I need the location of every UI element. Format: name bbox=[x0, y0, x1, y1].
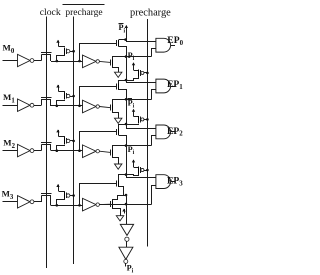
inverter I2a (input inverter) bbox=[18, 144, 31, 156]
node P0 junction bbox=[125, 55, 128, 58]
svg-text:M1: M1 bbox=[3, 92, 15, 104]
node n2 junction bbox=[56, 149, 59, 152]
inverter I3a (input inverter) bbox=[18, 196, 31, 208]
node branch to QP2 gate bbox=[78, 149, 81, 152]
AND gate G0 bbox=[156, 38, 171, 52]
svg-text:M0: M0 bbox=[3, 42, 15, 54]
inverter I0a (input inverter) bbox=[18, 54, 31, 66]
svg-text:Pi: Pi bbox=[127, 263, 134, 274]
node n1 junction bbox=[56, 105, 59, 108]
wire P1 bbox=[113, 100, 152, 105]
chain wire P0 to A1 bbox=[126, 57, 128, 80]
wire P2 bbox=[113, 146, 152, 150]
node branch to QP3 gate bbox=[78, 204, 81, 207]
node P1 junction bbox=[125, 98, 128, 101]
pass transistor Q1a (clocked) bbox=[41, 97, 51, 99]
inverter E3 bbox=[83, 198, 97, 211]
precharge line bbox=[147, 19, 149, 247]
clock line bbox=[46, 17, 48, 269]
node A2 junction bbox=[125, 123, 128, 126]
wire M0 input bbox=[3, 60, 18, 62]
ground of QL2 bbox=[113, 156, 119, 165]
precharge pMOS QR3 (right, gate on precharge line) bbox=[133, 160, 135, 167]
node A1 junction bbox=[125, 79, 128, 82]
wire AND1 bottom input bbox=[152, 90, 156, 100]
svg-text:Pi: Pi bbox=[128, 145, 135, 156]
wire E0 output bbox=[99, 61, 110, 62]
wire node0 bbox=[51, 61, 83, 63]
svg-text:Pi: Pi bbox=[119, 23, 126, 34]
inverter I1a (input inverter) bbox=[18, 99, 31, 111]
wire A3 to AND3 top input bbox=[127, 175, 156, 178]
transistor QP3 (upper nMOS) bbox=[116, 181, 118, 187]
transistor QP2 (upper nMOS) bbox=[116, 129, 118, 135]
node branch to QP1 gate bbox=[78, 105, 81, 108]
svg-text:precharge: precharge bbox=[130, 8, 171, 19]
svg-text:EP0: EP0 bbox=[167, 35, 183, 47]
svg-text:EP3: EP3 bbox=[167, 176, 183, 188]
precharge pMOS Q0b (left, VDD arrow) bbox=[58, 40, 60, 46]
node P2 junction bbox=[125, 144, 128, 147]
transistor QL3 (lower nMOS) bbox=[110, 201, 112, 207]
wire AND3 bottom input bbox=[152, 186, 156, 205]
transistor QL1 (lower nMOS) bbox=[110, 105, 112, 111]
wire node1 bbox=[51, 105, 83, 107]
node P3 junction bbox=[125, 194, 128, 197]
svg-text:precharge: precharge bbox=[65, 8, 102, 18]
node branch to QP0 gate bbox=[78, 60, 81, 63]
pass transistor Q0a (clocked) bbox=[41, 52, 51, 54]
wire inverter to pass transistor bbox=[34, 60, 42, 62]
wire P3 bbox=[99, 204, 151, 206]
wire AND0 bottom input bbox=[152, 49, 156, 57]
VDD arrow at Pbar_i bbox=[126, 26, 128, 40]
svg-text:clock: clock bbox=[40, 7, 61, 18]
wire P0 bbox=[113, 57, 152, 60]
wire inverter to pass transistor bbox=[34, 201, 42, 203]
inverter E2 bbox=[83, 145, 97, 158]
wire A2 to AND2 top input bbox=[127, 125, 156, 129]
wire inverter to pass transistor bbox=[34, 150, 42, 152]
wire E3 output bbox=[99, 203, 110, 205]
svg-text:M3: M3 bbox=[2, 189, 14, 201]
precharge pMOS Q3b (left, VDD arrow) bbox=[58, 185, 60, 191]
ground of QL1 bbox=[113, 111, 119, 119]
transistor QL0 (lower nMOS) bbox=[110, 59, 112, 65]
svg-text:M2: M2 bbox=[3, 138, 15, 150]
svg-text:EP1: EP1 bbox=[167, 79, 183, 91]
chain wire P1 to A2 bbox=[126, 99, 128, 124]
inverter E1 bbox=[83, 100, 97, 113]
inverter B2 (down) bbox=[119, 247, 133, 259]
node n3 junction bbox=[56, 204, 59, 207]
pass transistor Q3a (clocked) bbox=[41, 193, 51, 195]
transistor QL2 (lower nMOS) bbox=[110, 149, 112, 155]
pass transistor Q2a (clocked) bbox=[41, 142, 51, 144]
wire M3 input bbox=[3, 201, 18, 203]
wire AND2 bottom input bbox=[152, 136, 156, 146]
AND gate G1 bbox=[156, 79, 171, 93]
AND gate G3 bbox=[156, 175, 171, 189]
wire chain to output inverters bbox=[126, 204, 128, 224]
small VDD arrow on chain (bottom) bbox=[124, 209, 126, 213]
ground of QL3 bbox=[113, 208, 121, 216]
wire node2 bbox=[51, 150, 83, 152]
precharge pMOS Q2b (left, VDD arrow) bbox=[58, 130, 60, 136]
precharge pMOS QR2 (right, gate on precharge line) bbox=[133, 109, 135, 116]
wire output P bbox=[125, 263, 127, 266]
precharge pMOS QR1 (right, gate on precharge line) bbox=[133, 63, 135, 70]
wire E2 output bbox=[99, 151, 110, 152]
inverter E0 bbox=[83, 55, 97, 68]
precharge pMOS Q1b (left, VDD arrow) bbox=[58, 85, 60, 91]
transistor QP0 (upper nMOS) bbox=[116, 40, 118, 46]
ground of QL0 bbox=[113, 66, 119, 73]
inverter B1 (down) bbox=[120, 224, 133, 235]
precharge-bar line bbox=[73, 17, 75, 265]
svg-text:Pi: Pi bbox=[128, 51, 135, 62]
wire A0 to AND0 top input bbox=[127, 40, 156, 42]
node n0 junction bbox=[56, 60, 59, 63]
svg-text:EP2: EP2 bbox=[167, 126, 183, 138]
wire E1 output bbox=[99, 107, 110, 108]
node A0 junction bbox=[124, 38, 127, 41]
AND gate G2 bbox=[156, 125, 171, 139]
transistor QP1 (upper nMOS) bbox=[116, 84, 118, 90]
wire node3 bbox=[51, 205, 83, 207]
wire B1 to B2 bbox=[126, 241, 128, 247]
node A3 junction bbox=[125, 173, 128, 176]
wire A1 to AND1 top input bbox=[127, 81, 156, 83]
chain wire P2 to A3 bbox=[126, 146, 128, 175]
wire M2 input bbox=[3, 150, 18, 152]
wire M1 input bbox=[3, 105, 18, 107]
wire inverter to pass transistor bbox=[34, 105, 42, 107]
